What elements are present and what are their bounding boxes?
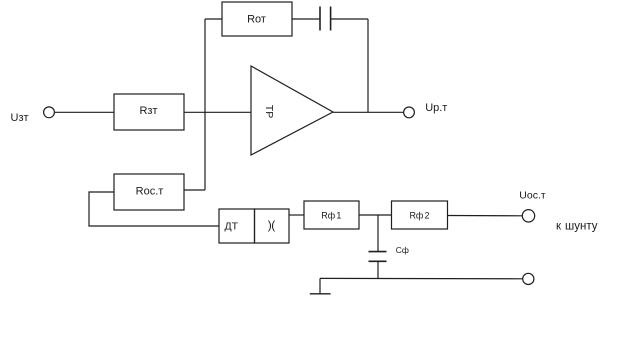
svg-text:Rф1: Rф1 [321, 210, 341, 220]
resistor Rос.т [114, 174, 184, 210]
svg-text:Uос.т: Uос.т [519, 190, 546, 202]
wire node A to Rос.т [184, 189, 205, 191]
wire junction to Сф [377, 215, 379, 251]
svg-text:Uр.т: Uр.т [425, 102, 447, 114]
wire Rф1 to Rф2 [359, 214, 392, 216]
wire Rос.т loop to ДТ [89, 192, 219, 226]
wire input to Rзт [55, 111, 115, 113]
svg-text:Rзт: Rзт [139, 105, 157, 117]
svg-text:Rос.т: Rос.т [136, 186, 164, 198]
wire bottom rail [320, 277, 523, 279]
wire Сф to bottom rail [377, 262, 379, 278]
wire isolation to Rф1 [289, 214, 304, 216]
block isolation )( [255, 209, 290, 243]
terminal Uос.т [522, 210, 534, 222]
wire feedback vertical left (node A) [204, 19, 206, 190]
resistor Rф2 [392, 201, 448, 229]
capacitor C1 (feedback) [319, 7, 321, 31]
resistor Rот [222, 2, 292, 36]
svg-text:Rф2: Rф2 [409, 210, 429, 220]
op-amp U1 РТ [251, 66, 333, 155]
wire node A to Rот [205, 18, 222, 20]
svg-text:Rот: Rот [247, 13, 266, 25]
svg-text:Uзт: Uзт [11, 112, 29, 124]
wire Rот to capacitor [292, 18, 320, 20]
wire capacitor to corner [331, 18, 368, 20]
wire op-amp output [333, 111, 404, 113]
wire feedback vertical right [367, 19, 369, 112]
wire Rф2 to terminal Uос.т [448, 215, 523, 217]
resistor Rф1 [304, 201, 359, 229]
terminal bottom right [523, 273, 534, 284]
capacitor Сф [369, 251, 387, 253]
resistor Rзт [114, 94, 184, 130]
block ДТ [219, 209, 255, 243]
svg-text:)(: )( [268, 218, 275, 232]
svg-text:ДТ: ДТ [225, 221, 239, 233]
ground [319, 278, 321, 293]
wire Rзт to op-amp [184, 111, 251, 113]
terminal Uзт [44, 107, 55, 118]
svg-text:ТР: ТР [263, 105, 275, 118]
terminal Uр.т [404, 107, 415, 118]
svg-text:Сф: Сф [396, 245, 409, 255]
